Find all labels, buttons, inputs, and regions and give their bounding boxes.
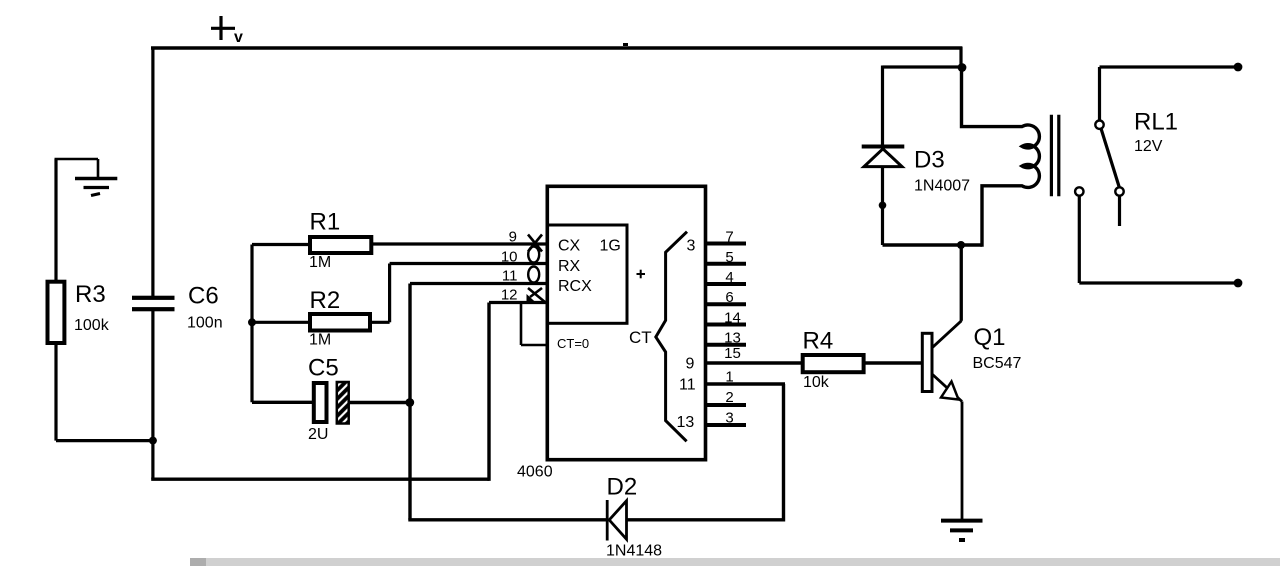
svg-text:CX: CX (558, 238, 581, 255)
svg-text:9: 9 (509, 229, 517, 246)
svg-text:3: 3 (687, 238, 696, 255)
svg-text:10: 10 (501, 249, 518, 266)
svg-text:D3: D3 (914, 147, 945, 174)
svg-text:2U: 2U (308, 426, 328, 443)
svg-text:v: v (234, 29, 243, 46)
svg-text:R1: R1 (310, 209, 341, 236)
svg-text:13: 13 (677, 414, 695, 431)
svg-text:R4: R4 (803, 327, 834, 354)
svg-text:RX: RX (558, 258, 581, 275)
svg-text:12: 12 (501, 287, 518, 304)
svg-text:C6: C6 (188, 283, 219, 310)
svg-text:2: 2 (725, 389, 733, 406)
svg-text:3: 3 (725, 409, 733, 426)
svg-text:4060: 4060 (517, 464, 553, 481)
svg-text:6: 6 (725, 289, 733, 306)
svg-text:15: 15 (724, 345, 741, 362)
svg-text:1N4148: 1N4148 (606, 543, 662, 560)
svg-text:Q1: Q1 (974, 324, 1006, 351)
svg-text:R3: R3 (75, 281, 106, 308)
svg-text:10k: 10k (803, 374, 830, 391)
svg-text:R2: R2 (310, 287, 341, 314)
svg-text:14: 14 (724, 310, 741, 327)
svg-text:CT=0: CT=0 (557, 336, 589, 351)
svg-text:D2: D2 (607, 474, 638, 501)
svg-text:RL1: RL1 (1134, 109, 1178, 136)
svg-text:100k: 100k (74, 317, 110, 334)
svg-text:1M: 1M (309, 254, 331, 271)
svg-text:11: 11 (502, 268, 518, 285)
svg-text:CT: CT (629, 328, 652, 347)
svg-text:4: 4 (725, 269, 733, 286)
svg-text:5: 5 (725, 249, 733, 266)
svg-text:7: 7 (725, 229, 733, 246)
svg-text:1: 1 (725, 368, 733, 385)
svg-text:RCX: RCX (558, 278, 592, 295)
svg-text:1N4007: 1N4007 (914, 178, 970, 195)
svg-text:1M: 1M (309, 332, 331, 349)
svg-text:9: 9 (686, 356, 695, 373)
svg-text:C5: C5 (308, 355, 339, 382)
svg-text:1G: 1G (600, 238, 621, 255)
svg-text:BC547: BC547 (973, 355, 1022, 372)
svg-text:11: 11 (679, 377, 696, 394)
svg-text:100n: 100n (187, 315, 223, 332)
svg-text:12V: 12V (1134, 138, 1163, 155)
